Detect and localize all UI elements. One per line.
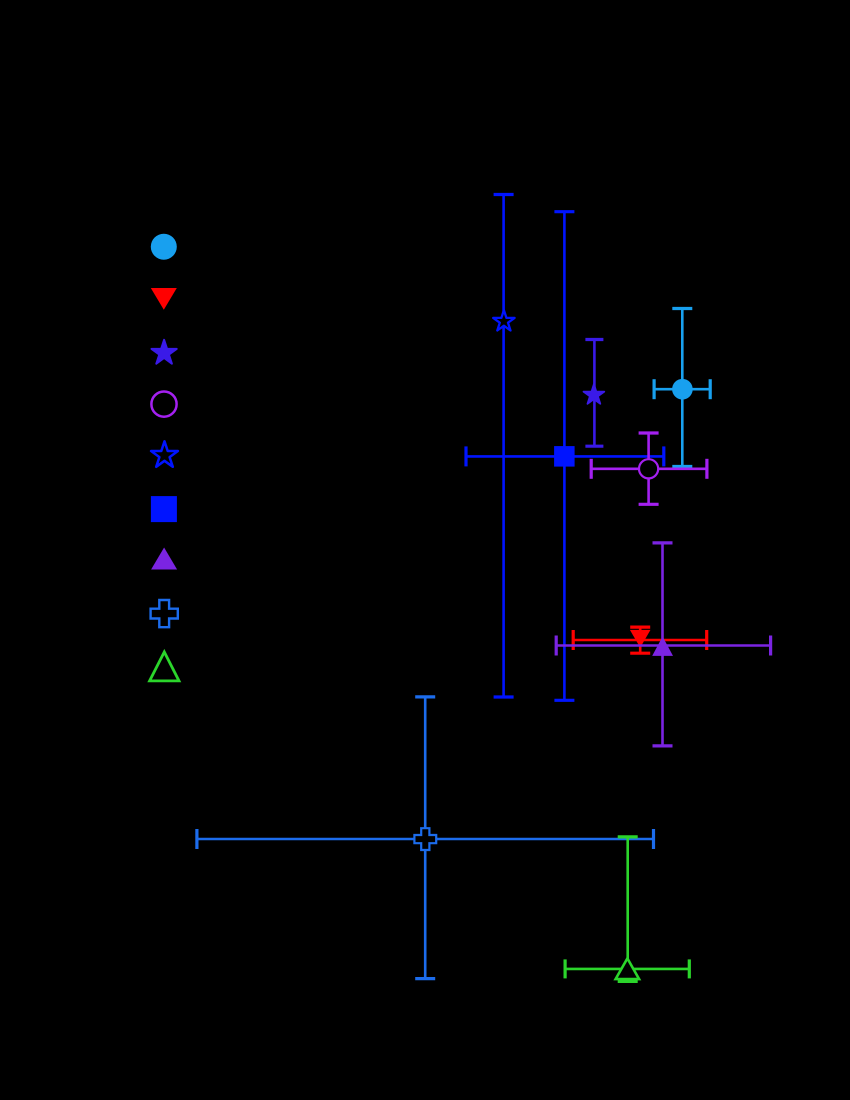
- series D (cyan circle) vertical error bar: [672, 309, 692, 467]
- legend marker 7: violet filled up-triangle: [151, 548, 177, 570]
- series A (open star) vertical error bar: [494, 195, 514, 698]
- series F (red triangle) horizontal error bar: [573, 630, 707, 650]
- legend marker 4: purple open circle: [151, 392, 176, 417]
- legend marker 3: filled star: [152, 340, 177, 364]
- legend marker 9: green open up-triangle: [150, 652, 179, 681]
- series G (violet triangle) vertical error bar: [653, 543, 673, 746]
- series D cyan circle marker: [672, 379, 693, 400]
- series E (open circle) vertical error bar: [639, 433, 659, 504]
- series G violet up-triangle marker: [652, 637, 673, 656]
- series G (violet triangle) horizontal error bar: [556, 636, 770, 656]
- series H open plus marker: [414, 828, 436, 850]
- series I green up-triangle marker: [616, 958, 640, 979]
- series B (square) horizontal error bar: [466, 446, 664, 466]
- series A open star marker: [493, 310, 514, 330]
- series H (open plus) horizontal error bar: [197, 829, 654, 849]
- series E open circle marker: [639, 459, 658, 478]
- legend marker 8: royal open plus: [151, 600, 178, 627]
- series C filled star marker: [584, 384, 605, 404]
- series B (square) vertical error bar: [554, 212, 574, 701]
- series F (red triangle) vertical error bar: [630, 627, 650, 653]
- series E (open circle) horizontal error bar: [591, 459, 707, 479]
- series H (open plus) vertical error bar: [415, 697, 435, 979]
- series I lower cap: [618, 980, 638, 983]
- series B square marker: [554, 446, 575, 467]
- series I (green triangle) horizontal error bar: [565, 959, 689, 978]
- series C (filled star) vertical error bar: [585, 340, 603, 447]
- legend marker 2: red filled down-triangle: [151, 288, 177, 310]
- legend marker 1: cyan filled circle: [151, 234, 177, 260]
- series I (green triangle) vertical error bar: [618, 837, 638, 980]
- series D (cyan circle) horizontal error bar: [654, 379, 710, 399]
- series F red down-triangle marker: [630, 630, 651, 648]
- legend marker 5: blue open star: [151, 441, 178, 467]
- legend marker 6: blue filled square: [151, 496, 177, 522]
